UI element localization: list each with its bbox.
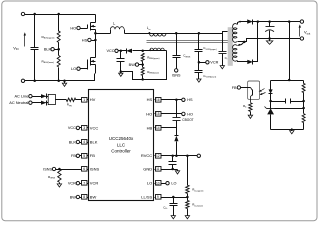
svg-text:LO: LO <box>71 66 76 71</box>
wire Lm to Cr node <box>167 33 223 35</box>
junction VCC cap <box>120 50 123 53</box>
terminal LO pin-side <box>166 182 169 185</box>
wire RLL mid <box>187 194 189 201</box>
node FB net bottom rail <box>271 129 304 131</box>
junction CISNS tap <box>175 32 178 35</box>
wire to primary top <box>223 32 228 34</box>
ground CVCC <box>120 72 122 74</box>
capacitor CLL <box>173 198 175 204</box>
polarity dot secondary upper <box>239 21 241 23</box>
diode opto LED <box>269 89 273 93</box>
opto light arrows <box>260 89 265 92</box>
svg-text:LL/SS: LL/SS <box>141 194 152 199</box>
junction Cout bottom <box>268 37 271 40</box>
svg-text:HS: HS <box>82 37 88 42</box>
wire SW column <box>95 34 97 58</box>
resistor RBLK(upper) <box>57 31 60 43</box>
AC join box <box>48 94 55 104</box>
pin 8 BW <box>82 195 88 200</box>
Vout arrow <box>299 27 301 37</box>
wire Lr to Lm <box>125 33 150 35</box>
terminal BW power-stage <box>135 63 138 66</box>
junction cap-bottom <box>33 80 36 83</box>
junction bias return <box>141 78 144 81</box>
capacitor CISNS <box>176 34 178 56</box>
junction ref node <box>302 107 305 110</box>
svg-text:10: 10 <box>156 181 160 185</box>
svg-text:ISNS: ISNS <box>43 167 52 171</box>
wire SW to Lr <box>96 33 111 35</box>
wire Q1 source to SW node <box>95 30 97 34</box>
wire HO pin <box>161 113 182 115</box>
pin 3 VCC <box>82 126 88 131</box>
svg-text:4: 4 <box>83 140 85 144</box>
svg-text:7: 7 <box>83 181 85 185</box>
wire diode to RVCC <box>176 142 178 156</box>
wire AC line <box>33 96 42 98</box>
svg-text:5: 5 <box>83 154 85 158</box>
pin 7 VCR <box>82 181 88 186</box>
node FB net top rail <box>271 80 304 82</box>
junction bias divider <box>141 50 144 53</box>
ground CVCR <box>198 79 200 80</box>
terminal Vout- <box>300 37 303 40</box>
wire LO pin <box>161 183 166 185</box>
wire comp branch <box>271 101 286 103</box>
svg-text:HO: HO <box>146 111 152 116</box>
polarity dot bias winding <box>149 49 151 51</box>
wire AC neutral <box>33 102 42 104</box>
wire bias winding right lead <box>165 50 167 52</box>
VIN arrow <box>24 35 26 47</box>
ground input rail <box>63 80 66 83</box>
svg-text:12: 12 <box>156 154 160 158</box>
wire HB to diode <box>176 128 178 136</box>
transformer T1 core <box>228 27 233 66</box>
terminal VCR power-stage <box>206 61 209 64</box>
junction RLL mid <box>186 196 189 199</box>
resistor RLL(upper) <box>186 185 189 193</box>
svg-text:BLK: BLK <box>69 140 77 144</box>
svg-text:FB: FB <box>90 153 95 158</box>
ground Rb <box>250 112 252 116</box>
junction D2 column <box>257 20 260 23</box>
wire HO gate <box>81 28 88 30</box>
inductor bias winding <box>150 48 165 51</box>
terminal BLK tap <box>51 48 54 51</box>
svg-text:FB: FB <box>71 154 76 158</box>
terminal FB secondary <box>237 86 240 89</box>
diode AC line <box>41 94 46 98</box>
svg-text:1: 1 <box>83 98 85 102</box>
svg-text:VCR: VCR <box>90 181 99 186</box>
transformer T1 secondary upper <box>233 24 237 43</box>
wire CBOOT column <box>176 100 178 118</box>
svg-text:15: 15 <box>156 112 160 116</box>
svg-text:16: 16 <box>156 98 160 102</box>
transistor Q1 high-side MOSFET <box>87 25 89 29</box>
resistor RHV <box>66 98 76 101</box>
pin 9 LL/SS <box>156 195 162 200</box>
terminal HS pin-side <box>182 98 185 101</box>
wire bias return <box>121 51 167 80</box>
svg-text:VCC: VCC <box>106 49 114 53</box>
wire LO gate <box>81 68 88 70</box>
svg-text:HS: HS <box>187 98 193 102</box>
terminal Vin- <box>21 79 24 82</box>
junction CVCC2 tap <box>171 155 174 158</box>
wire HS stub <box>92 40 96 42</box>
svg-text:8: 8 <box>83 195 85 199</box>
resistor RBW(upper) <box>141 53 144 61</box>
wire FB column <box>289 22 291 81</box>
svg-text:LO: LO <box>147 181 152 186</box>
svg-text:6: 6 <box>83 167 85 171</box>
ground CLL <box>173 209 175 216</box>
wire to BLK tap <box>58 43 60 56</box>
svg-text:3: 3 <box>83 126 85 130</box>
svg-text:VCC: VCC <box>90 125 99 130</box>
svg-text:14: 14 <box>156 126 160 130</box>
junction divider-bottom <box>57 80 60 83</box>
pin 16 HS <box>156 98 162 103</box>
wire BLK stub <box>55 49 59 51</box>
wire RLL column <box>187 156 189 186</box>
resistor Rb <box>249 103 252 112</box>
svg-text:HV: HV <box>90 97 96 102</box>
diode bootstrap <box>175 135 179 137</box>
inductor Lm primary winding <box>150 33 167 36</box>
svg-text:UCC25640x: UCC25640x <box>109 136 134 141</box>
svg-text:BW: BW <box>129 63 136 67</box>
pin 6 ISNS <box>82 167 88 172</box>
capacitor CVCR(upper) <box>198 34 200 50</box>
node output rail <box>253 21 302 23</box>
wire BW stub <box>139 64 143 66</box>
svg-text:AC Neutral: AC Neutral <box>9 100 28 105</box>
junction CLL tap <box>172 196 175 199</box>
ground Cr <box>222 65 224 67</box>
junction RISNS <box>58 168 61 171</box>
terminal HS <box>88 38 91 41</box>
wire TL431 ref <box>275 108 304 110</box>
node VCR tap <box>198 61 201 64</box>
wire diode to bias winding <box>133 50 150 52</box>
wire to RHV <box>56 99 67 101</box>
ground RISNS <box>59 183 61 184</box>
wire LLSS pin <box>161 197 188 199</box>
pin 14 HB <box>156 126 162 131</box>
junction CVCR tap <box>198 32 201 35</box>
terminal LO <box>77 67 80 70</box>
terminal HO <box>77 26 80 29</box>
wire center tap <box>238 41 245 43</box>
junction CVCC bottom <box>120 70 123 73</box>
node BW tap <box>141 63 144 66</box>
wire HS pin <box>161 99 182 101</box>
ground GND pin <box>177 170 179 171</box>
junction cap-top <box>33 13 36 16</box>
resistor RFB(lower) <box>302 114 305 123</box>
node BLK tap <box>57 48 60 51</box>
terminal AC Neutral <box>29 101 32 104</box>
ground RLL <box>187 209 189 216</box>
pin 4 BLK <box>82 140 88 145</box>
wire HB pin <box>161 127 177 129</box>
junction FB column top <box>288 20 291 23</box>
junction HS <box>175 99 178 102</box>
pin 11 GND <box>156 167 162 172</box>
optocoupler U2 box <box>248 81 260 99</box>
svg-text:LLC: LLC <box>117 142 126 147</box>
wire RBW bottom <box>142 76 144 80</box>
wire GND pin <box>161 169 178 171</box>
svg-text:BW: BW <box>90 194 97 199</box>
svg-text:CBOOT: CBOOT <box>182 118 193 122</box>
capacitor Cin <box>34 15 36 48</box>
capacitor Cout <box>269 22 271 27</box>
wire LED top lead <box>270 81 272 90</box>
pin 10 LO <box>156 181 162 186</box>
junction comp node <box>269 100 272 103</box>
transformer T1 primary <box>228 31 230 41</box>
junction FB column bottom <box>288 79 291 82</box>
svg-text:HO: HO <box>187 112 193 116</box>
polarity dot Lm <box>148 32 150 34</box>
svg-text:9: 9 <box>157 195 159 199</box>
pin 1 HV <box>82 98 88 103</box>
svg-text:BLK: BLK <box>90 139 98 144</box>
svg-text:FB: FB <box>232 86 237 90</box>
terminal ISNS power-stage <box>175 69 178 72</box>
wire RBW mid <box>142 62 144 68</box>
diode D1 upper rectifier <box>247 19 253 23</box>
wire center tap to out-return <box>245 39 302 42</box>
wire divider mid <box>303 102 305 114</box>
capacitor RVCC bypass <box>172 156 174 162</box>
ground output <box>269 39 271 41</box>
svg-text:BW: BW <box>70 195 77 199</box>
diode AC neutral <box>41 101 46 105</box>
svg-text:LO: LO <box>171 182 176 186</box>
wire RVCC pin <box>161 155 198 157</box>
svg-text:VCR: VCR <box>68 182 76 186</box>
node SW junction <box>94 32 97 35</box>
wire top-rail to Q1 drain <box>95 15 97 23</box>
op-amp U1 UCC25640x body <box>89 90 154 201</box>
junction RVCC cap bottom <box>171 168 174 171</box>
svg-text:VCR: VCR <box>210 61 218 65</box>
pin 15 HO <box>156 112 162 117</box>
junction divider-top <box>57 13 60 16</box>
svg-text:HB: HB <box>147 125 153 130</box>
ground FB network <box>291 128 293 130</box>
node HS tap <box>94 39 97 42</box>
svg-text:HS: HS <box>147 97 153 102</box>
svg-text:HO: HO <box>70 25 76 30</box>
junction center tap <box>243 41 246 44</box>
transistor opto phototransistor <box>251 88 253 91</box>
transistor Q2 low-side MOSFET <box>87 60 89 70</box>
wire LED to TL431 <box>270 94 272 109</box>
wire BLK divider column top <box>58 15 60 32</box>
svg-text:VCC: VCC <box>68 126 76 130</box>
resistor RFB(upper) <box>303 81 305 84</box>
svg-text:11: 11 <box>156 167 160 171</box>
inductor Lr <box>110 30 112 34</box>
shunt regulator TL431 <box>267 108 275 110</box>
diode bias rectifier <box>126 49 132 53</box>
terminal Vin+ <box>21 12 24 15</box>
svg-text:ISNS: ISNS <box>172 73 181 77</box>
junction Cout top <box>268 20 271 23</box>
junction comp node right <box>302 100 305 103</box>
resistor RBW(lower) <box>141 67 144 75</box>
polarity dot secondary lower <box>238 44 240 46</box>
wire secondary upper top lead <box>238 22 248 25</box>
capacitor CVCC <box>120 51 122 59</box>
wire VCR stub <box>199 62 206 64</box>
diode D2 lower rectifier <box>247 60 253 64</box>
wire secondary lower bottom lead <box>238 61 248 62</box>
capacitor CVCR(lower) <box>198 63 200 71</box>
node VIN+ top rail <box>25 14 96 16</box>
pin 5 FB <box>82 154 88 159</box>
wire Q2 source to rail <box>95 65 97 74</box>
terminal AC Line <box>29 95 32 98</box>
svg-text:RVCC: RVCC <box>141 153 152 158</box>
transformer T1 secondary lower <box>233 45 237 61</box>
pin 12 RVCC <box>156 154 162 159</box>
wire VCC node <box>119 50 127 52</box>
resistor RLL(lower) <box>186 200 189 208</box>
wire FB to opto collector <box>241 87 251 89</box>
terminal VCC power-stage <box>115 49 118 52</box>
junction bootstrap anode <box>175 155 178 158</box>
transformer core lines <box>147 40 229 42</box>
terminal Vout+ <box>300 20 303 23</box>
capacitor Cr <box>222 34 224 52</box>
wire ISNS to pin <box>56 169 82 171</box>
junction RLL column top <box>186 155 189 158</box>
svg-text:GND: GND <box>143 166 152 171</box>
resistor RBLK(lower) <box>57 56 60 68</box>
wire RHV to HV pin <box>76 99 82 101</box>
svg-text:ISNS: ISNS <box>90 166 100 171</box>
wire D2 to output rail <box>253 22 258 62</box>
wire divider bottom <box>58 68 60 81</box>
svg-text:AC Line: AC Line <box>14 94 28 99</box>
terminal HO pin-side <box>182 112 185 115</box>
node VIN- bottom rail <box>25 74 95 81</box>
resistor RISNS <box>58 169 61 182</box>
capacitor CBOOT <box>173 117 181 119</box>
svg-text:Controller: Controller <box>111 149 131 154</box>
svg-text:BLK: BLK <box>44 48 52 52</box>
terminal RVCC <box>197 154 200 157</box>
